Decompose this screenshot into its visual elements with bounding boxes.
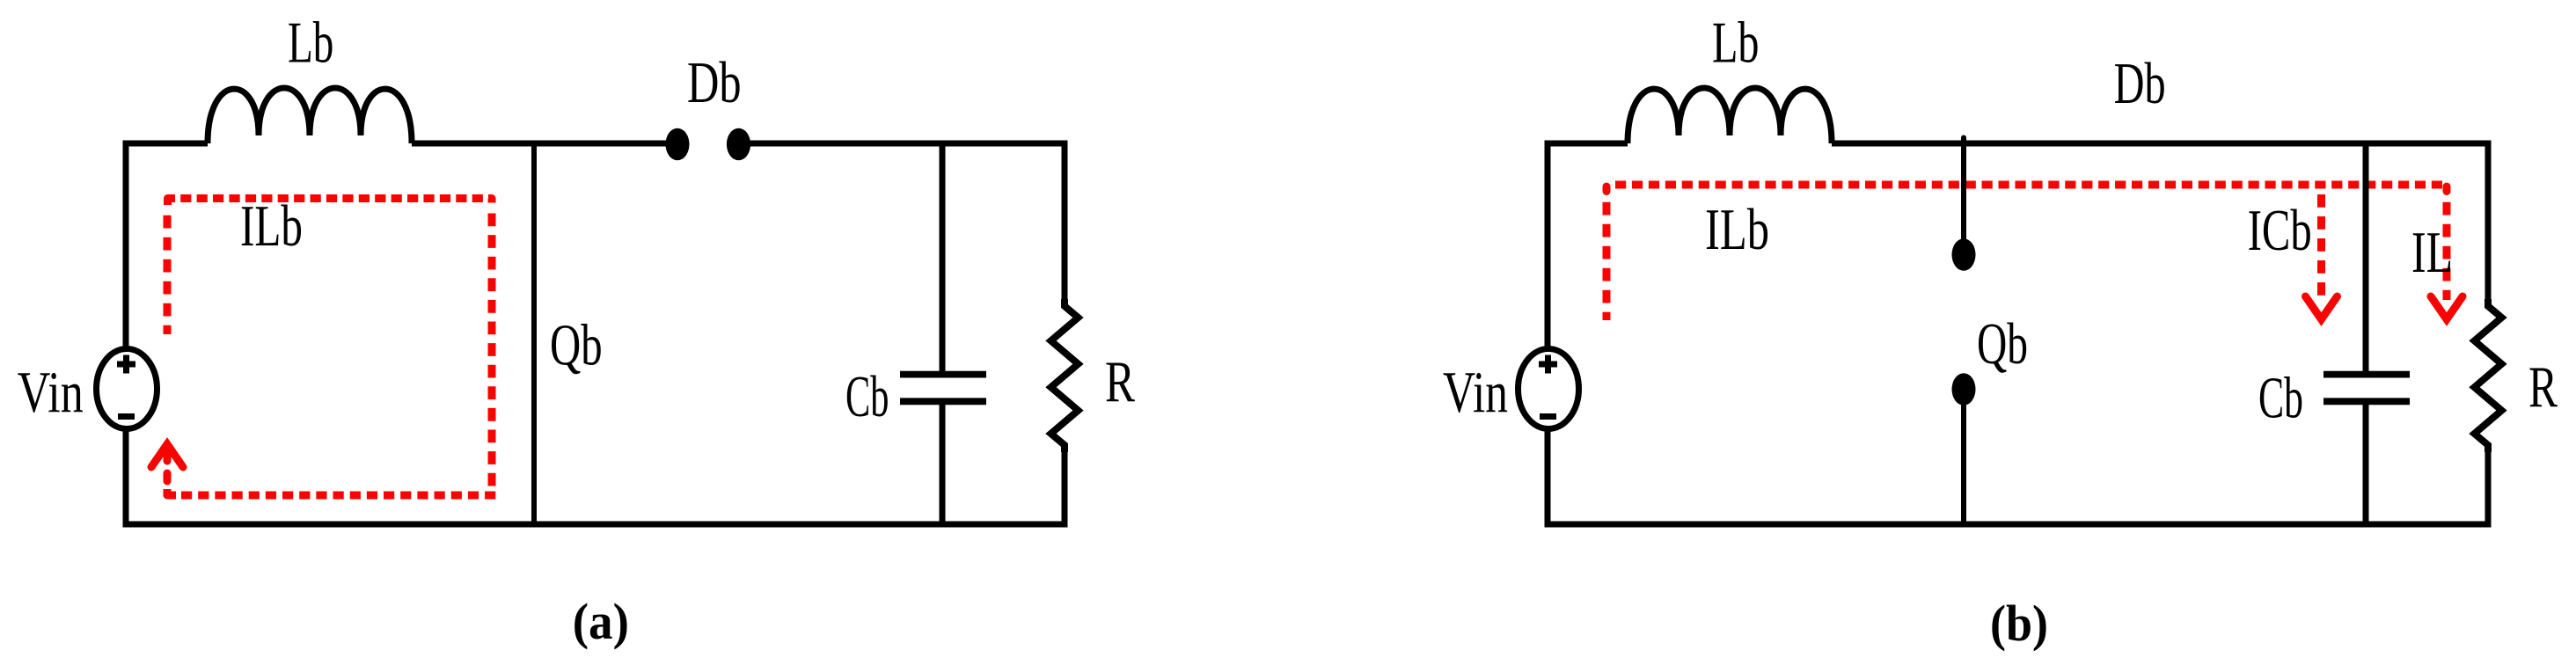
svg-text:R: R	[2528, 354, 2558, 420]
svg-text:IL: IL	[2411, 220, 2453, 285]
svg-text:ICb: ICb	[2248, 198, 2312, 263]
svg-text:Qb: Qb	[550, 313, 603, 378]
svg-text:Vin: Vin	[18, 360, 84, 425]
svg-text:(a): (a)	[573, 593, 629, 650]
svg-text:Db: Db	[2114, 51, 2166, 116]
svg-text:Cb: Cb	[2258, 366, 2303, 431]
svg-text:Qb: Qb	[1977, 311, 2028, 376]
svg-text:R: R	[1105, 349, 1135, 414]
svg-text:Db: Db	[687, 50, 742, 115]
svg-text:ILb: ILb	[1705, 197, 1769, 262]
svg-text:ILb: ILb	[240, 194, 303, 259]
svg-text:(b): (b)	[1990, 595, 2048, 652]
svg-text:Vin: Vin	[1443, 360, 1508, 425]
svg-text:Lb: Lb	[1712, 11, 1760, 76]
svg-text:Cb: Cb	[845, 364, 889, 429]
svg-text:Lb: Lb	[288, 11, 333, 76]
